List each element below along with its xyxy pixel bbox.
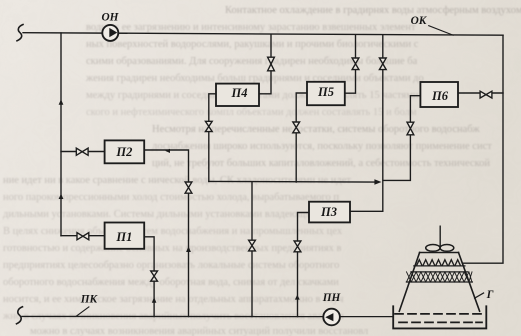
cooling tower G : water dashes row1	[395, 313, 481, 315]
flow arrow up on left riser (lower)	[59, 194, 64, 199]
svg-text:П2: П2	[115, 145, 132, 159]
svg-text:ОК: ОК	[411, 15, 428, 27]
valve on M1 drop	[249, 240, 256, 251]
svg-text:Несмотря на перечисленные недо: Несмотря на перечисленные недостатки, си…	[152, 124, 480, 135]
valve on P2 riser	[185, 182, 192, 193]
wire: P1 right line to riser x154	[144, 237, 154, 317]
leader line for OK label	[429, 26, 453, 36]
wavy break top-left	[17, 25, 23, 41]
wire: P4 left drop to M1	[209, 94, 216, 182]
svg-text:Г: Г	[486, 289, 494, 301]
svg-text:носится, и ее химическое загря: носится, и ее химическое загрязнение на …	[3, 294, 344, 305]
wire: P4 top feed from header	[259, 34, 271, 94]
cooling tower G : packing band top line	[411, 271, 468, 273]
cooling tower G : packing cross-hatch	[407, 272, 473, 282]
cooling tower G : left slant wall	[399, 253, 419, 312]
box P1	[105, 223, 145, 249]
box P4	[216, 84, 259, 106]
svg-text:оборотного водоснабжения между: оборотного водоснабжения между оборотная…	[3, 277, 339, 288]
svg-text:ОН: ОН	[102, 12, 120, 24]
svg-text:ций, не требуют больших капита: ций, не требуют больших капиталовложений…	[152, 158, 490, 169]
cooling tower G : spray nozzles zigzag	[417, 260, 461, 266]
valve at P6 right (horizontal)	[480, 91, 492, 98]
valve on P4 top feed	[268, 57, 275, 71]
wire: left riser x61	[60, 33, 62, 236]
svg-text:В целях снижения объемов систе: В целях снижения объемов систем водоснаб…	[3, 226, 343, 237]
pump PN circle	[323, 309, 340, 326]
valve on P5 top feed	[352, 58, 359, 70]
cooling tower G : chord under nozzles	[414, 265, 465, 267]
wire: PK bottom line	[22, 315, 393, 317]
wire: P2 left branch	[61, 151, 105, 153]
cooling tower G : water dashes row2	[399, 321, 482, 323]
svg-text:П1: П1	[115, 230, 132, 244]
svg-text:ного парокомпрессионными холод: ного парокомпрессионными холод стоимость…	[3, 192, 339, 203]
svg-text:П6: П6	[431, 89, 449, 103]
cooling tower G : packing band bottom line	[406, 281, 472, 283]
flow arrow up on P1 riser	[152, 297, 157, 303]
svg-text:можно в случаях возникновения: можно в случаях возникновения аварийных …	[30, 326, 368, 336]
svg-text:водит к ее загрязнению и интен: водит к ее загрязнению и интенсивному за…	[86, 22, 416, 33]
wire: P5 left drop to M1	[296, 93, 307, 182]
box P3	[309, 202, 350, 223]
pump PN rotor triangle	[325, 313, 333, 321]
wire: right header drop OK line down to tower inlet	[464, 35, 504, 263]
valve on P1 riser	[151, 271, 158, 281]
valve on P3 left drop	[294, 241, 301, 252]
leader line for G label	[475, 293, 484, 298]
cooling tower G : right slant wall	[459, 253, 480, 312]
flow arrow up on P3 riser	[295, 295, 300, 300]
wire: top header line from break to right corner	[23, 33, 503, 36]
flow arrow left into P2	[165, 149, 170, 153]
svg-text:Контактное охлаждение в градир: Контактное охлаждение в градирнях воды а…	[225, 5, 521, 16]
svg-text:дильными установками. Системы: дильными установками. Системы дильными у…	[3, 209, 346, 220]
svg-text:ПК: ПК	[80, 293, 99, 305]
svg-text:П5: П5	[317, 85, 334, 99]
flow arrow up on P2 riser	[186, 246, 191, 252]
valve on P5 left drop	[293, 122, 300, 133]
flow arrow right at end of M1	[374, 179, 381, 185]
pump ON circle	[102, 25, 118, 41]
box P6	[420, 82, 458, 107]
svg-text:скими образованиями. Для соору: скими образованиями. Для сооружения град…	[86, 56, 418, 67]
valve on x382.8 feed	[379, 58, 386, 70]
cooling tower G : top edge	[420, 252, 459, 254]
flow arrow up on left riser (upper)	[59, 99, 64, 104]
svg-text:доснабжения широко используютс: доснабжения широко используются, посколь…	[152, 141, 492, 152]
svg-text:П4: П4	[231, 86, 248, 100]
svg-text:ние идет ни в какое сравнение: ние идет ни в какое сравнение с нической…	[3, 175, 351, 186]
cooling tower G : fan blades	[426, 245, 440, 252]
svg-text:жения градирен необходимы боль: жения градирен необходимы больш градирня…	[85, 73, 424, 84]
wire: P3 left drop to PK	[298, 213, 310, 317]
leader line for PK label	[76, 307, 89, 316]
wire: M1 drop x252 to PK	[251, 182, 253, 317]
svg-text:готовностью и содержание основ: готовностью и содержание основных на про…	[3, 243, 341, 254]
wire: M1 collector horizontal	[209, 180, 375, 183]
valve on P6 left drop	[407, 122, 414, 135]
wire: P2 right line to riser x188.5	[144, 150, 188, 317]
wire: P6 left line down to junction	[383, 96, 420, 181]
svg-text:ПН: ПН	[322, 292, 342, 304]
wire: x382.8 feed from header down to junction and P3	[350, 35, 383, 211]
pump ON rotor triangle	[109, 28, 117, 37]
svg-text:предприятиях целесообразно орг: предприятиях целесообразно организовать …	[3, 260, 339, 271]
svg-text:ных поверхностей водорослями,: ных поверхностей водорослями, ракушками …	[86, 39, 419, 50]
cooling tower G : basin	[393, 306, 486, 328]
valve at P1 left (horizontal)	[77, 233, 89, 240]
wire: P5 top feed	[345, 35, 356, 93]
box P2	[105, 140, 145, 163]
svg-text:П3: П3	[320, 205, 337, 219]
valve on P4 left drop	[205, 121, 212, 131]
cooling tower G : fan shaft	[439, 226, 441, 246]
valve at P2 left (horizontal)	[76, 148, 88, 155]
box P5	[307, 82, 345, 105]
wire: P6 right line to OK riser	[458, 92, 503, 94]
wavy break bottom-left	[17, 307, 23, 324]
svg-text:ского и нефтехимического компл: ского и нефтехимического компл объектами…	[86, 107, 417, 118]
wire: P1 left branch	[61, 235, 105, 237]
